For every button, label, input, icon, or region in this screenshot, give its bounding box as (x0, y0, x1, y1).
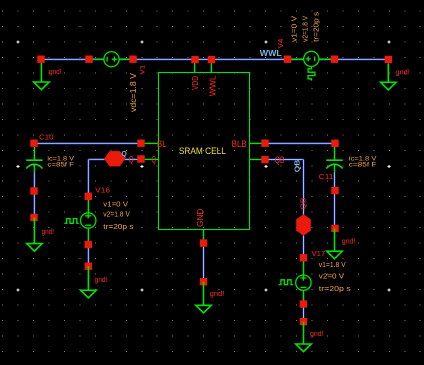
pin BL stub (145, 142, 159, 144)
wire BL net (34, 142, 141, 144)
wire Q net to pin (125, 158, 142, 160)
junction V17 minus (300, 300, 307, 307)
wire V17 to gnd wire (302, 304, 304, 322)
svg-text:WWL: WWL (207, 75, 217, 96)
svg-text:v2=1.8 V: v2=1.8 V (103, 212, 130, 219)
wire C11 lower lead (333, 173, 335, 229)
junction V16 minus (85, 241, 92, 248)
svg-text:V4: V4 (278, 39, 285, 49)
svg-text:gnd!: gnd! (395, 67, 409, 76)
junction BL-C10 (30, 140, 37, 147)
ground V16 gnd (81, 266, 96, 298)
svg-text:v1=0 V: v1=0 V (291, 16, 298, 42)
V1 leads (89, 58, 133, 60)
pin Q (137, 155, 144, 162)
svg-text:V17: V17 (312, 249, 326, 258)
capacitor C10 (26, 147, 42, 173)
junction GND-gnd (200, 278, 207, 285)
V16 upper lead (87, 196, 89, 212)
svg-text:v1=1.8 V: v1=1.8 V (319, 262, 346, 269)
junction Q-V16 (85, 193, 92, 200)
wire C10 lower lead (33, 173, 35, 218)
pulse waveform V4 (308, 66, 315, 80)
svg-text:c=85f F: c=85f F (47, 161, 74, 168)
svg-text:QB: QB (293, 160, 302, 173)
junction rail-V4 plus (284, 56, 291, 63)
svg-text:gnd!: gnd! (42, 227, 55, 236)
svg-text:gnd!: gnd! (310, 329, 324, 338)
grid crosses (17, 41, 391, 292)
junction C10 wire 1 (30, 187, 37, 194)
svg-text:VDD: VDD (190, 76, 200, 90)
svg-text:Q: Q (129, 154, 134, 164)
wire BLB net (265, 142, 335, 144)
voltage source V1 vdc (104, 52, 119, 67)
svg-text:GND: GND (195, 209, 205, 228)
svg-text:C11: C11 (319, 172, 334, 181)
pin QB stub (249, 159, 262, 161)
V17 upper lead (303, 258, 305, 275)
junction rail-V4 minus (331, 56, 338, 63)
svg-text:gnd!: gnd! (95, 275, 108, 284)
voltage source V16 vpulse (81, 213, 96, 228)
junction BLB-C11 (331, 140, 338, 147)
wire QB net vertical upper (302, 160, 304, 215)
svg-text:V16: V16 (95, 186, 110, 195)
svg-text:tr=20p s: tr=20p s (314, 11, 321, 42)
wire Q net vertical (87, 159, 89, 196)
junction QB-V17 (300, 254, 307, 261)
wire V16 to gnd wire (87, 245, 89, 267)
V16 lower lead (87, 228, 89, 244)
svg-text:gnd!: gnd! (342, 237, 355, 246)
junction rail-V1 plus (129, 56, 136, 63)
pin VDD (191, 56, 198, 63)
V4 leads (288, 58, 335, 60)
pin BLB stub (249, 142, 262, 144)
junction rail-gnd right (385, 56, 392, 63)
net flag QB (hexagon) (296, 214, 311, 236)
wire QB net vertical lower (302, 236, 304, 258)
pin WWL stub (210, 63, 212, 73)
junction rail-gnd left (37, 56, 44, 63)
svg-text:tr=20p s: tr=20p s (103, 224, 134, 231)
junction rail-V1 minus (85, 56, 92, 63)
wire top rail VDD/WWL net (41, 58, 388, 60)
svg-text:QB: QB (300, 197, 307, 209)
ground top-right gnd (381, 64, 396, 90)
SRAM cell symbol box U-SRAM (159, 73, 250, 230)
svg-text:v2=1.8 V: v2=1.8 V (303, 16, 310, 42)
pin GND (200, 239, 207, 246)
junction C10 wire 2 (30, 214, 37, 221)
ground C11 gnd (327, 228, 342, 258)
pin VDD stub (194, 63, 196, 73)
pulse waveform V16 (64, 219, 78, 224)
svg-text:vdc=1.8 V: vdc=1.8 V (129, 72, 138, 112)
svg-text:c=85f F: c=85f F (349, 161, 377, 168)
capacitor C11 (326, 147, 342, 173)
net flag Q (hexagon) (104, 151, 125, 166)
voltage source V4 vpulse (304, 51, 319, 66)
svg-text:v1=0 V: v1=0 V (103, 202, 128, 209)
svg-text:WWL: WWL (260, 49, 282, 58)
junction C11 wire 1 (331, 187, 338, 194)
pin BL (137, 140, 144, 147)
voltage source V17 vpulse (296, 275, 311, 290)
svg-text:Q: Q (121, 149, 127, 158)
pin QB (261, 156, 268, 163)
svg-text:V1: V1 (139, 64, 146, 74)
svg-text:C10: C10 (39, 132, 54, 141)
junction V16 gnd (85, 263, 92, 270)
svg-text:Q: Q (151, 154, 156, 164)
wire Q net horizontal (88, 158, 104, 160)
ground V17 gnd (296, 322, 311, 352)
ground top-left gnd (34, 63, 49, 90)
V17 lower lead (303, 290, 305, 304)
ground C10 gnd (27, 218, 42, 252)
junction V17 gnd (300, 318, 307, 325)
pin BLB (261, 140, 268, 147)
pulse waveform V17 (279, 280, 293, 285)
svg-text:tr=20p s: tr=20p s (319, 286, 352, 293)
svg-text:BLB: BLB (232, 139, 247, 149)
pin Q stub (145, 158, 159, 160)
wire QB net horizontal (265, 158, 304, 160)
junction C11 wire 2 (331, 225, 338, 232)
svg-text:v2=0 V: v2=0 V (319, 274, 345, 281)
wire GND pin wire (202, 247, 204, 282)
svg-text:BL: BL (157, 139, 167, 149)
ground GND pin gnd (196, 282, 211, 313)
svg-text:SRAM CELL: SRAM CELL (179, 146, 226, 156)
svg-text:gnd!: gnd! (49, 67, 62, 76)
pin WWL (208, 56, 215, 63)
svg-text:gnd!: gnd! (210, 289, 225, 298)
pin GND stub (203, 230, 205, 240)
svg-text:QB: QB (275, 155, 285, 165)
